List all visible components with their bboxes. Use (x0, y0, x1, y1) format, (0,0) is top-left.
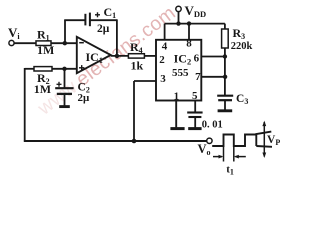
input terminal Vi (8, 25, 20, 46)
capacitor 0.01 on pin 5 (187, 113, 223, 131)
wire R1 to op-amp inverting input (51, 42, 77, 44)
wire junction to C2 (64, 69, 66, 88)
wire pin 4 to VDD rail (164, 24, 166, 40)
node junction pin8 rail (187, 21, 191, 25)
svg-text:VP: VP (267, 134, 280, 147)
svg-text:C1: C1 (104, 5, 117, 20)
power terminal VDD (176, 3, 206, 19)
timer IC2 555 (156, 40, 201, 101)
node junction at inverting input (63, 41, 67, 45)
wire feedback top left (64, 19, 85, 21)
wire pin 5 to bypass capacitor (194, 101, 196, 113)
wire left feedback vertical (24, 68, 26, 142)
svg-text:3: 3 (160, 73, 166, 85)
svg-text:R3: R3 (233, 26, 246, 41)
node junction pin 6 (223, 54, 227, 58)
node junction at op-amp output (115, 54, 119, 58)
capacitor C1 (85, 5, 116, 35)
svg-text:2μ: 2μ (78, 92, 91, 104)
node junction VDD drop (176, 21, 180, 25)
annotation VP amplitude arrow (262, 121, 280, 158)
wire bottom rail (24, 140, 207, 142)
capacitor C2 (55, 81, 90, 105)
svg-text:1M: 1M (37, 43, 54, 57)
resistor R2 (34, 67, 52, 96)
svg-text:Vi: Vi (8, 25, 20, 41)
svg-text:1k: 1k (131, 58, 144, 72)
wire feedback left vertical (64, 20, 66, 43)
resistor R4 (128, 40, 144, 72)
svg-text:4: 4 (162, 40, 168, 52)
svg-text:2μ: 2μ (97, 23, 110, 35)
ground under 0.01 capacitor (188, 127, 201, 130)
output terminal Vo (198, 138, 213, 157)
svg-text:Vo: Vo (198, 142, 211, 157)
wire op-amp output (111, 55, 129, 57)
resistor R3 (222, 24, 253, 52)
ground under C2 (59, 105, 70, 108)
wire R4 to 555 pin 2 (144, 55, 156, 57)
resistor R1 (36, 28, 54, 57)
svg-text:VDD: VDD (185, 3, 207, 19)
svg-text:1M: 1M (34, 82, 51, 96)
wire pin 3 output (134, 81, 156, 142)
svg-text:5: 5 (192, 90, 198, 102)
wire pin 8 to VDD rail (188, 24, 190, 40)
svg-text:0. 01: 0. 01 (202, 120, 223, 131)
watermark (33, 2, 180, 120)
svg-text:2: 2 (159, 54, 165, 66)
svg-text:6: 6 (194, 53, 200, 65)
output waveform (212, 132, 272, 147)
svg-text:220k: 220k (231, 41, 253, 52)
wire pin 6 to R3 line (201, 56, 225, 58)
node junction bottom rail (132, 139, 137, 144)
ground under C3 (218, 109, 233, 112)
wire feedback right vertical (116, 19, 118, 56)
svg-text:7: 7 (195, 71, 201, 83)
op-amp IC1 (77, 37, 111, 73)
svg-text:555: 555 (172, 67, 189, 79)
wire VDD terminal drop (178, 11, 180, 23)
node junction at non-inverting input (62, 67, 66, 71)
annotation t1 width marks (213, 147, 246, 177)
wire R2 corner to non-inverting input (25, 68, 34, 70)
wire pin 7 to R3 line (201, 76, 225, 78)
wire pin 1 to ground (175, 101, 177, 128)
wire R3 down to C3 (224, 48, 226, 95)
wire Vi to R1 (14, 42, 36, 44)
svg-text:R1: R1 (37, 28, 50, 43)
svg-text:C3: C3 (236, 93, 248, 106)
node junction pin 7 (223, 75, 227, 79)
wire VDD rail (165, 23, 225, 25)
wire R2 to op-amp non-inverting input (52, 68, 77, 70)
wire feedback top right (90, 19, 117, 21)
capacitor C3 (217, 93, 248, 110)
ground pin 1 (170, 127, 184, 130)
svg-text:t1: t1 (226, 163, 234, 176)
